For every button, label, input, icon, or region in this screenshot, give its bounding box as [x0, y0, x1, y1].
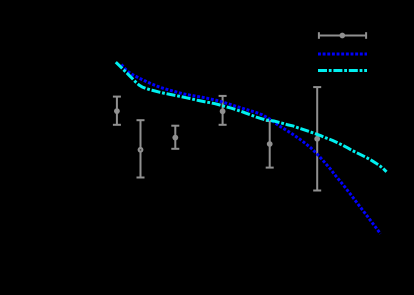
legend entry 3: cyan dash-dot sample line	[318, 69, 367, 72]
legend entry 2: blue dotted sample line	[318, 53, 367, 56]
data point 1 error bar	[113, 97, 121, 125]
data point 5 error bar	[266, 121, 274, 168]
data point 3 marker	[172, 135, 178, 141]
data point 2 marker center hole	[140, 149, 142, 151]
data point 2 marker	[138, 147, 144, 153]
data point 3 error bar	[171, 126, 179, 149]
data point 5 marker	[267, 141, 273, 147]
legend entry 1: gray marker	[339, 33, 345, 39]
legend entry 1: gray error bar sample line	[318, 32, 367, 39]
data point 6 error bar	[313, 87, 321, 190]
data point 4 marker	[220, 108, 226, 114]
data point 2 error bar	[137, 120, 145, 177]
blue dotted model curve	[121, 65, 380, 234]
cyan dash-dot model curve	[116, 62, 387, 172]
data point 6 marker	[314, 136, 320, 142]
data point 4 error bar	[219, 96, 227, 125]
data point 1 marker	[114, 108, 120, 114]
